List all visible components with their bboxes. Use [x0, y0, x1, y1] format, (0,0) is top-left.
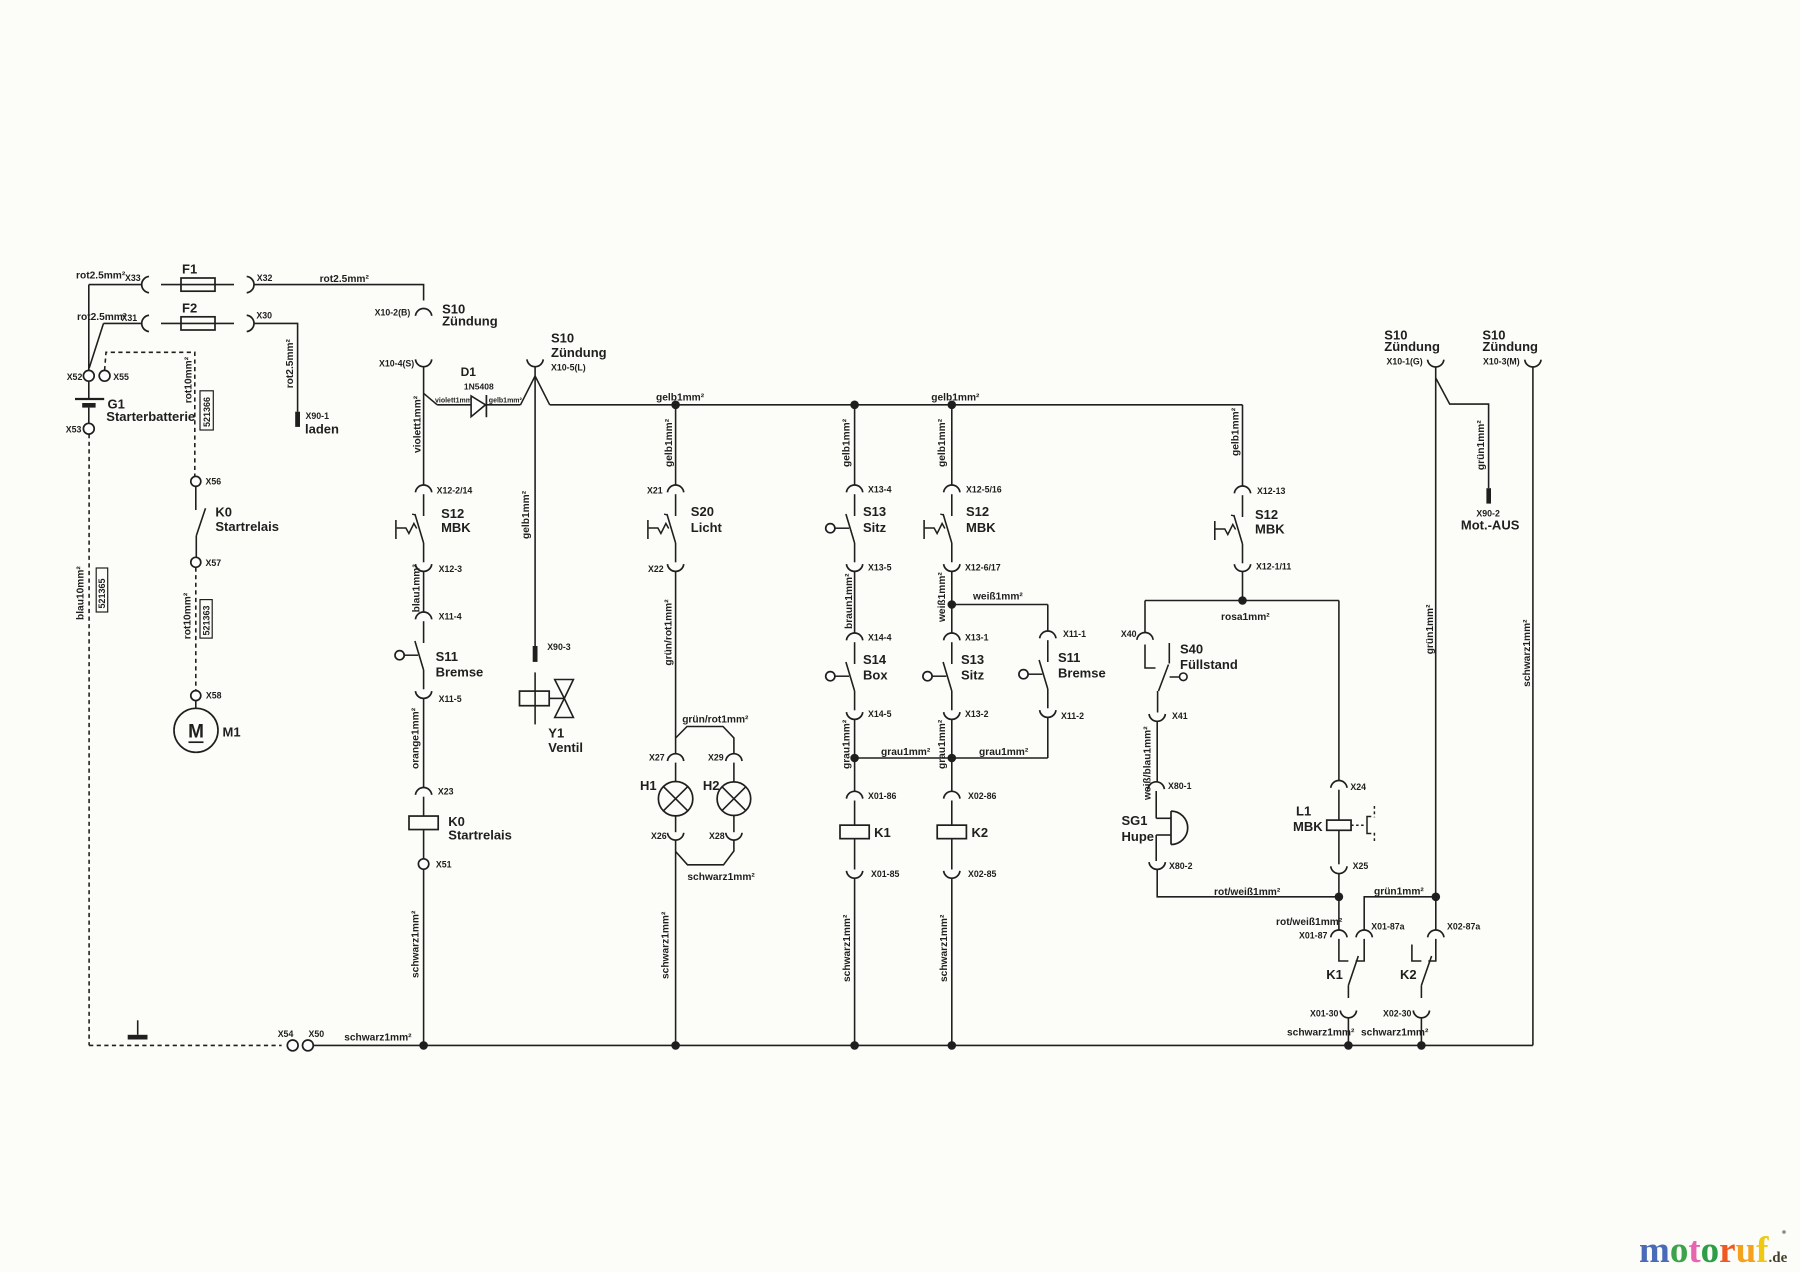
svg-text:S13: S13	[863, 504, 886, 519]
svg-text:gelb1mm²: gelb1mm²	[664, 418, 675, 467]
svg-text:X30: X30	[256, 311, 272, 321]
svg-text:X14-5: X14-5	[868, 709, 892, 719]
svg-text:schwarz1mm²: schwarz1mm²	[1522, 619, 1533, 687]
svg-text:X55: X55	[113, 372, 129, 382]
svg-text:X80-2: X80-2	[1169, 861, 1193, 871]
svg-text:Sitz: Sitz	[961, 668, 985, 683]
svg-text:X12-1/11: X12-1/11	[1256, 562, 1291, 572]
svg-text:X02-87a: X02-87a	[1447, 922, 1480, 932]
svg-text:X54: X54	[278, 1029, 294, 1039]
svg-text:Zündung: Zündung	[551, 345, 607, 360]
svg-text:X26: X26	[651, 831, 667, 841]
svg-text:rot2.5mm²: rot2.5mm²	[285, 338, 296, 388]
svg-text:Sitz: Sitz	[863, 520, 887, 535]
svg-text:X25: X25	[1353, 861, 1369, 871]
svg-text:X14-4: X14-4	[868, 633, 892, 643]
svg-text:521366: 521366	[202, 397, 212, 427]
svg-text:Zündung: Zündung	[1384, 339, 1440, 354]
svg-text:Füllstand: Füllstand	[1180, 657, 1238, 672]
svg-text:Zündung: Zündung	[442, 313, 498, 328]
svg-text:schwarz1mm²: schwarz1mm²	[660, 911, 671, 979]
svg-text:S12: S12	[1255, 507, 1278, 522]
svg-text:rot2.5mm²: rot2.5mm²	[76, 271, 126, 282]
svg-text:F2: F2	[182, 301, 197, 316]
svg-text:weiß1mm²: weiß1mm²	[937, 572, 948, 623]
svg-text:X80-1: X80-1	[1168, 781, 1192, 791]
svg-text:X57: X57	[206, 558, 222, 568]
svg-text:X10-2(B): X10-2(B)	[375, 307, 411, 317]
svg-text:grün/rot1mm²: grün/rot1mm²	[682, 715, 749, 726]
svg-text:S12: S12	[966, 504, 989, 519]
svg-text:violett1mm²: violett1mm²	[412, 395, 423, 453]
svg-text:Startrelais: Startrelais	[448, 828, 512, 843]
svg-text:X32: X32	[257, 273, 273, 283]
svg-text:S14: S14	[863, 652, 887, 667]
svg-text:X12-5/16: X12-5/16	[966, 485, 1002, 495]
svg-text:X21: X21	[647, 486, 663, 496]
svg-text:blau1mm²: blau1mm²	[411, 564, 422, 613]
svg-text:Bremse: Bremse	[436, 664, 484, 679]
svg-text:S40: S40	[1180, 642, 1203, 657]
svg-text:X12-13: X12-13	[1257, 486, 1285, 496]
svg-text:Zündung: Zündung	[1482, 339, 1538, 354]
svg-text:S12: S12	[441, 506, 464, 521]
svg-text:K1: K1	[1326, 967, 1343, 982]
svg-text:521363: 521363	[201, 605, 211, 635]
svg-text:X33: X33	[125, 273, 141, 283]
svg-text:grau1mm²: grau1mm²	[937, 719, 948, 769]
svg-text:X90-1: X90-1	[306, 411, 330, 421]
svg-text:schwarz1mm²: schwarz1mm²	[687, 872, 755, 883]
svg-text:K2: K2	[972, 825, 989, 840]
svg-text:X02-85: X02-85	[968, 869, 996, 879]
svg-text:Y1: Y1	[548, 725, 564, 740]
svg-text:521365: 521365	[97, 578, 107, 608]
svg-text:grün1mm²: grün1mm²	[1374, 887, 1424, 898]
svg-text:X10-1(G): X10-1(G)	[1387, 357, 1423, 367]
svg-text:1N5408: 1N5408	[464, 381, 494, 391]
svg-text:X56: X56	[206, 477, 222, 487]
svg-text:S10: S10	[551, 331, 574, 346]
svg-text:grau1mm²: grau1mm²	[841, 719, 852, 769]
svg-text:gelb1mm²: gelb1mm²	[1231, 407, 1242, 456]
svg-text:schwarz1mm²: schwarz1mm²	[842, 914, 853, 982]
svg-text:rot/weiß1mm²: rot/weiß1mm²	[1276, 917, 1343, 928]
svg-text:blau10mm²: blau10mm²	[76, 566, 87, 620]
svg-text:H2: H2	[703, 778, 720, 793]
svg-text:grün1mm²: grün1mm²	[1425, 604, 1436, 654]
svg-text:Startrelais: Startrelais	[215, 519, 279, 534]
svg-text:F1: F1	[182, 262, 197, 277]
svg-text:laden: laden	[305, 421, 339, 436]
svg-text:S20: S20	[691, 504, 714, 519]
svg-text:schwarz1mm²: schwarz1mm²	[411, 910, 422, 978]
svg-text:motoruf.de: motoruf.de	[1639, 1230, 1788, 1271]
svg-text:X10-3(M): X10-3(M)	[1483, 357, 1520, 367]
svg-text:X12-3: X12-3	[439, 564, 463, 574]
svg-text:rot/weiß1mm²: rot/weiß1mm²	[1214, 887, 1281, 898]
svg-text:violett1mm: violett1mm	[435, 397, 472, 404]
svg-text:X11-4: X11-4	[439, 612, 462, 622]
svg-text:X29: X29	[708, 753, 724, 763]
svg-text:X01-30: X01-30	[1310, 1009, 1338, 1019]
svg-text:X01-87: X01-87	[1299, 931, 1327, 941]
svg-text:X02-30: X02-30	[1383, 1009, 1411, 1019]
svg-text:gelb1mm²: gelb1mm²	[489, 397, 523, 404]
svg-text:S13: S13	[961, 652, 984, 667]
svg-text:K0: K0	[215, 505, 232, 520]
svg-text:S11: S11	[1058, 650, 1080, 665]
svg-text:X01-85: X01-85	[871, 869, 899, 879]
svg-text:schwarz1mm²: schwarz1mm²	[1287, 1028, 1355, 1039]
svg-text:schwarz1mm²: schwarz1mm²	[1361, 1028, 1429, 1039]
svg-text:Hupe: Hupe	[1122, 829, 1155, 844]
svg-text:gelb1mm²: gelb1mm²	[521, 490, 532, 539]
svg-text:L1: L1	[1296, 804, 1311, 819]
svg-text:X41: X41	[1172, 711, 1188, 721]
svg-text:X27: X27	[649, 753, 665, 763]
svg-text:weiß1mm²: weiß1mm²	[972, 592, 1023, 603]
svg-text:grau1mm²: grau1mm²	[881, 747, 931, 758]
svg-text:MBK: MBK	[1293, 819, 1323, 834]
svg-text:gelb1mm²: gelb1mm²	[937, 418, 948, 467]
svg-text:X53: X53	[66, 425, 82, 435]
svg-text:Licht: Licht	[691, 520, 723, 535]
svg-text:X10-4(S): X10-4(S)	[379, 359, 414, 369]
svg-text:S11: S11	[436, 649, 458, 664]
svg-text:rot2.5mm²: rot2.5mm²	[77, 312, 127, 323]
svg-text:X13-5: X13-5	[868, 563, 892, 573]
svg-text:Box: Box	[863, 668, 888, 683]
svg-text:X90-3: X90-3	[547, 642, 571, 652]
svg-text:X02-86: X02-86	[968, 791, 996, 801]
svg-text:K1: K1	[874, 825, 891, 840]
svg-text:Ventil: Ventil	[548, 740, 583, 755]
svg-text:gelb1mm²: gelb1mm²	[841, 418, 852, 467]
svg-text:braun1mm²: braun1mm²	[844, 573, 855, 629]
svg-text:weiß/blau1mm²: weiß/blau1mm²	[1142, 726, 1153, 801]
svg-text:Bremse: Bremse	[1058, 665, 1106, 680]
svg-text:MBK: MBK	[441, 520, 471, 535]
svg-text:Starterbatterie: Starterbatterie	[106, 409, 195, 424]
svg-text:K2: K2	[1400, 967, 1417, 982]
svg-text:MBK: MBK	[966, 520, 996, 535]
svg-text:X50: X50	[309, 1029, 325, 1039]
svg-text:X11-5: X11-5	[439, 694, 462, 704]
svg-text:X52: X52	[67, 372, 83, 382]
svg-text:M1: M1	[223, 724, 241, 739]
svg-text:X22: X22	[648, 564, 664, 574]
svg-text:X10-5(L): X10-5(L)	[551, 363, 586, 373]
svg-text:grün1mm²: grün1mm²	[1476, 420, 1487, 470]
svg-text:grün/rot1mm²: grün/rot1mm²	[664, 599, 675, 666]
svg-text:MBK: MBK	[1255, 521, 1285, 536]
svg-text:rot10mm²: rot10mm²	[183, 592, 194, 639]
svg-text:X23: X23	[438, 786, 454, 796]
svg-text:Mot.-AUS: Mot.-AUS	[1461, 518, 1520, 533]
svg-text:X13-1: X13-1	[965, 633, 989, 643]
svg-text:X40: X40	[1121, 629, 1137, 639]
svg-text:gelb1mm²: gelb1mm²	[656, 393, 705, 404]
svg-text:gelb1mm²: gelb1mm²	[931, 393, 980, 404]
svg-text:X01-86: X01-86	[868, 791, 896, 801]
svg-text:schwarz1mm²: schwarz1mm²	[939, 914, 950, 982]
svg-text:X11-1: X11-1	[1063, 629, 1086, 639]
svg-text:H1: H1	[640, 778, 657, 793]
svg-text:rot10mm²: rot10mm²	[184, 356, 195, 403]
svg-text:rot2.5mm²: rot2.5mm²	[320, 274, 370, 285]
svg-text:X24: X24	[1350, 782, 1366, 792]
svg-text:grau1mm²: grau1mm²	[979, 747, 1029, 758]
svg-text:SG1: SG1	[1122, 813, 1148, 828]
svg-text:X12-2/14: X12-2/14	[437, 486, 473, 496]
svg-text:X13-4: X13-4	[868, 485, 892, 495]
svg-text:X12-6/17: X12-6/17	[965, 563, 1001, 573]
svg-text:X58: X58	[206, 691, 222, 701]
svg-text:X28: X28	[709, 831, 725, 841]
svg-text:M: M	[188, 722, 204, 743]
svg-text:schwarz1mm²: schwarz1mm²	[344, 1033, 412, 1044]
svg-text:X13-2: X13-2	[965, 709, 989, 719]
svg-text:rosa1mm²: rosa1mm²	[1221, 612, 1270, 623]
svg-text:X11-2: X11-2	[1061, 711, 1084, 721]
svg-text:X31: X31	[122, 313, 138, 323]
svg-text:X01-87a: X01-87a	[1371, 922, 1404, 932]
svg-text:orange1mm²: orange1mm²	[411, 707, 422, 769]
svg-text:X51: X51	[436, 860, 452, 870]
svg-text:D1: D1	[461, 365, 477, 379]
